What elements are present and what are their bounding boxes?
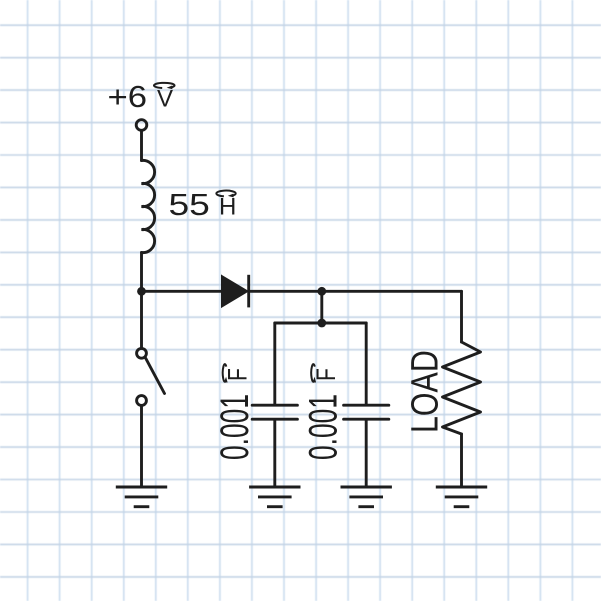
svg-text:H: H <box>219 194 236 221</box>
wire <box>460 291 463 342</box>
inductor L1 55uH <box>142 160 155 252</box>
svg-text:LOAD: LOAD <box>404 350 446 433</box>
supply terminal +6V <box>136 120 147 131</box>
ground <box>116 487 167 507</box>
wire <box>140 406 143 486</box>
svg-text:V: V <box>157 86 173 113</box>
wire <box>365 323 368 404</box>
capacitor C1 <box>252 405 297 419</box>
capacitor C2 <box>344 405 389 419</box>
node C (rail/diode junction) <box>137 287 146 296</box>
wire <box>365 421 368 486</box>
node B <box>317 319 326 328</box>
ground <box>436 487 487 507</box>
svg-text:F: F <box>312 368 342 381</box>
wire <box>460 434 463 486</box>
label +6 V <box>108 79 175 114</box>
wire <box>142 290 222 293</box>
wire <box>249 290 462 293</box>
wire <box>273 323 276 404</box>
wire <box>140 131 143 161</box>
label 55 uH <box>169 188 237 222</box>
wire <box>273 421 276 486</box>
wire <box>140 252 143 348</box>
label 0.001 uF (C2) <box>301 364 346 460</box>
svg-text:0.001: 0.001 <box>301 394 346 460</box>
node A <box>317 287 326 296</box>
ground <box>249 487 300 507</box>
svg-text:55: 55 <box>169 188 210 222</box>
resistor LOAD <box>443 342 481 434</box>
ground <box>341 487 392 507</box>
diode D1 <box>222 275 249 308</box>
wire <box>275 322 366 325</box>
svg-text:0.001: 0.001 <box>213 394 258 460</box>
label 0.001 uF (C1) <box>213 364 258 460</box>
svg-text:F: F <box>223 368 253 381</box>
switch S1 <box>137 348 165 405</box>
wire <box>320 291 323 323</box>
svg-text:+6: +6 <box>108 79 148 114</box>
